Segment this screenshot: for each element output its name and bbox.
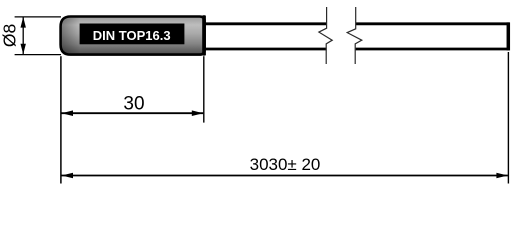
wire cable bottom edge (left segment) [205, 48, 327, 51]
label plate [80, 24, 185, 45]
probe left cap shading [62, 18, 80, 54]
svg-text:30: 30 [123, 93, 144, 114]
break line right [347, 7, 362, 64]
extension line left shared [60, 56, 62, 183]
arrowhead right of 30 [192, 110, 203, 116]
arrowhead left overall [62, 173, 73, 179]
probe body [61, 17, 205, 55]
probe right end thick edge [202, 15, 206, 55]
arrowhead left of 30 [62, 110, 73, 116]
svg-text:Ø8: Ø8 [0, 24, 20, 47]
dimension line overall length [62, 175, 508, 177]
extension line bottom (diameter) [15, 54, 61, 56]
extension line top (diameter) [15, 16, 61, 18]
arrowhead right overall [496, 173, 507, 179]
break line left [319, 7, 332, 64]
cable end cap [507, 22, 511, 50]
extension line right of 30 dim [203, 56, 205, 122]
extension line right overall [507, 52, 509, 184]
arrowhead down [21, 44, 26, 55]
svg-text:3030± 20: 3030± 20 [250, 155, 321, 174]
wire cable bottom edge (right segment) [356, 48, 510, 51]
wire cable top edge (right segment) [356, 22, 510, 25]
arrowhead up [21, 17, 26, 28]
dimension line diameter [22, 17, 24, 54]
svg-text:DIN TOP16.3: DIN TOP16.3 [93, 28, 171, 43]
wire cable top edge (left segment) [205, 22, 327, 25]
dimension line 30 [62, 112, 204, 114]
